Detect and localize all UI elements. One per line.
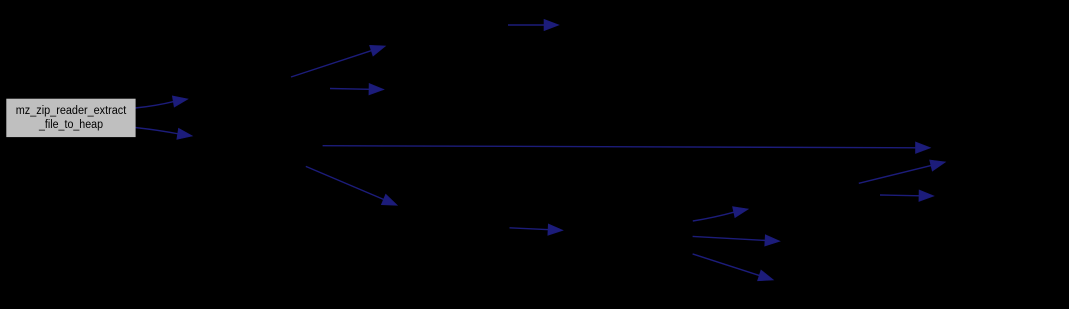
svg-text:mz_zip_reader_extract: mz_zip_reader_extract (16, 105, 127, 117)
svg-text:_file_to_heap: _file_to_heap (38, 119, 103, 131)
